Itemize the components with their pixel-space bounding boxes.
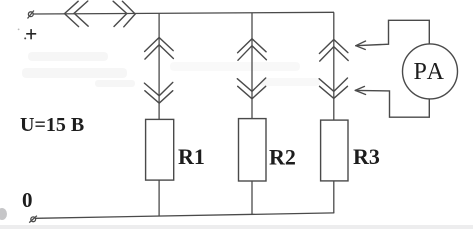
terminal + (positive input terminal) <box>28 11 34 19</box>
break mark: right chevrons on top bus <box>113 1 135 27</box>
wire: branch 3 vertical <box>333 12 335 120</box>
svg-text:PA: PA <box>414 59 446 85</box>
arrow: top probe tip <box>356 41 366 50</box>
wire: bottom bus <box>36 213 334 218</box>
break mark: branch 1 lower chevrons <box>144 82 172 103</box>
plus label <box>26 29 36 39</box>
svg-text:0: 0 <box>22 188 33 212</box>
resistor R1 <box>146 119 174 180</box>
wire: branch 1 vertical <box>158 13 160 119</box>
bottom scan band <box>0 225 473 229</box>
wire: ammeter top probe lead <box>356 20 430 45</box>
svg-text:R3: R3 <box>353 144 380 169</box>
terminal 0 (zero output terminal) <box>29 216 37 223</box>
break mark: left chevrons on top bus <box>65 1 89 27</box>
ghost smudge middle <box>170 62 320 86</box>
wire: R3 to bottom bus <box>333 181 335 213</box>
wire: R1 to bottom bus <box>158 180 160 216</box>
bottom-left smudge <box>0 208 7 220</box>
wire: R2 to bottom bus <box>251 181 253 215</box>
faint mark above plus <box>18 29 20 31</box>
break mark: branch 3 upper chevrons <box>319 40 348 62</box>
break mark: branch 2 lower chevrons <box>237 78 265 99</box>
ammeter PA circle <box>403 44 458 99</box>
break mark: branch 3 lower chevrons <box>319 78 347 98</box>
wire: top bus from + terminal to branch 3 <box>33 12 334 14</box>
svg-text:R2: R2 <box>269 145 296 170</box>
wire: branch 2 vertical <box>251 13 253 119</box>
break mark: branch 1 upper chevrons <box>145 38 174 60</box>
wire: ammeter bottom probe lead <box>355 90 429 117</box>
arrow: bottom probe tip <box>355 86 365 94</box>
svg-text:R1: R1 <box>178 144 205 169</box>
dot near plus <box>24 37 26 39</box>
break mark: branch 2 upper chevrons <box>238 39 267 61</box>
ghost smudge upper-left <box>22 52 135 87</box>
svg-text:U=15 В: U=15 В <box>20 114 84 136</box>
resistor R2 <box>239 119 267 181</box>
resistor R3 <box>321 120 348 181</box>
